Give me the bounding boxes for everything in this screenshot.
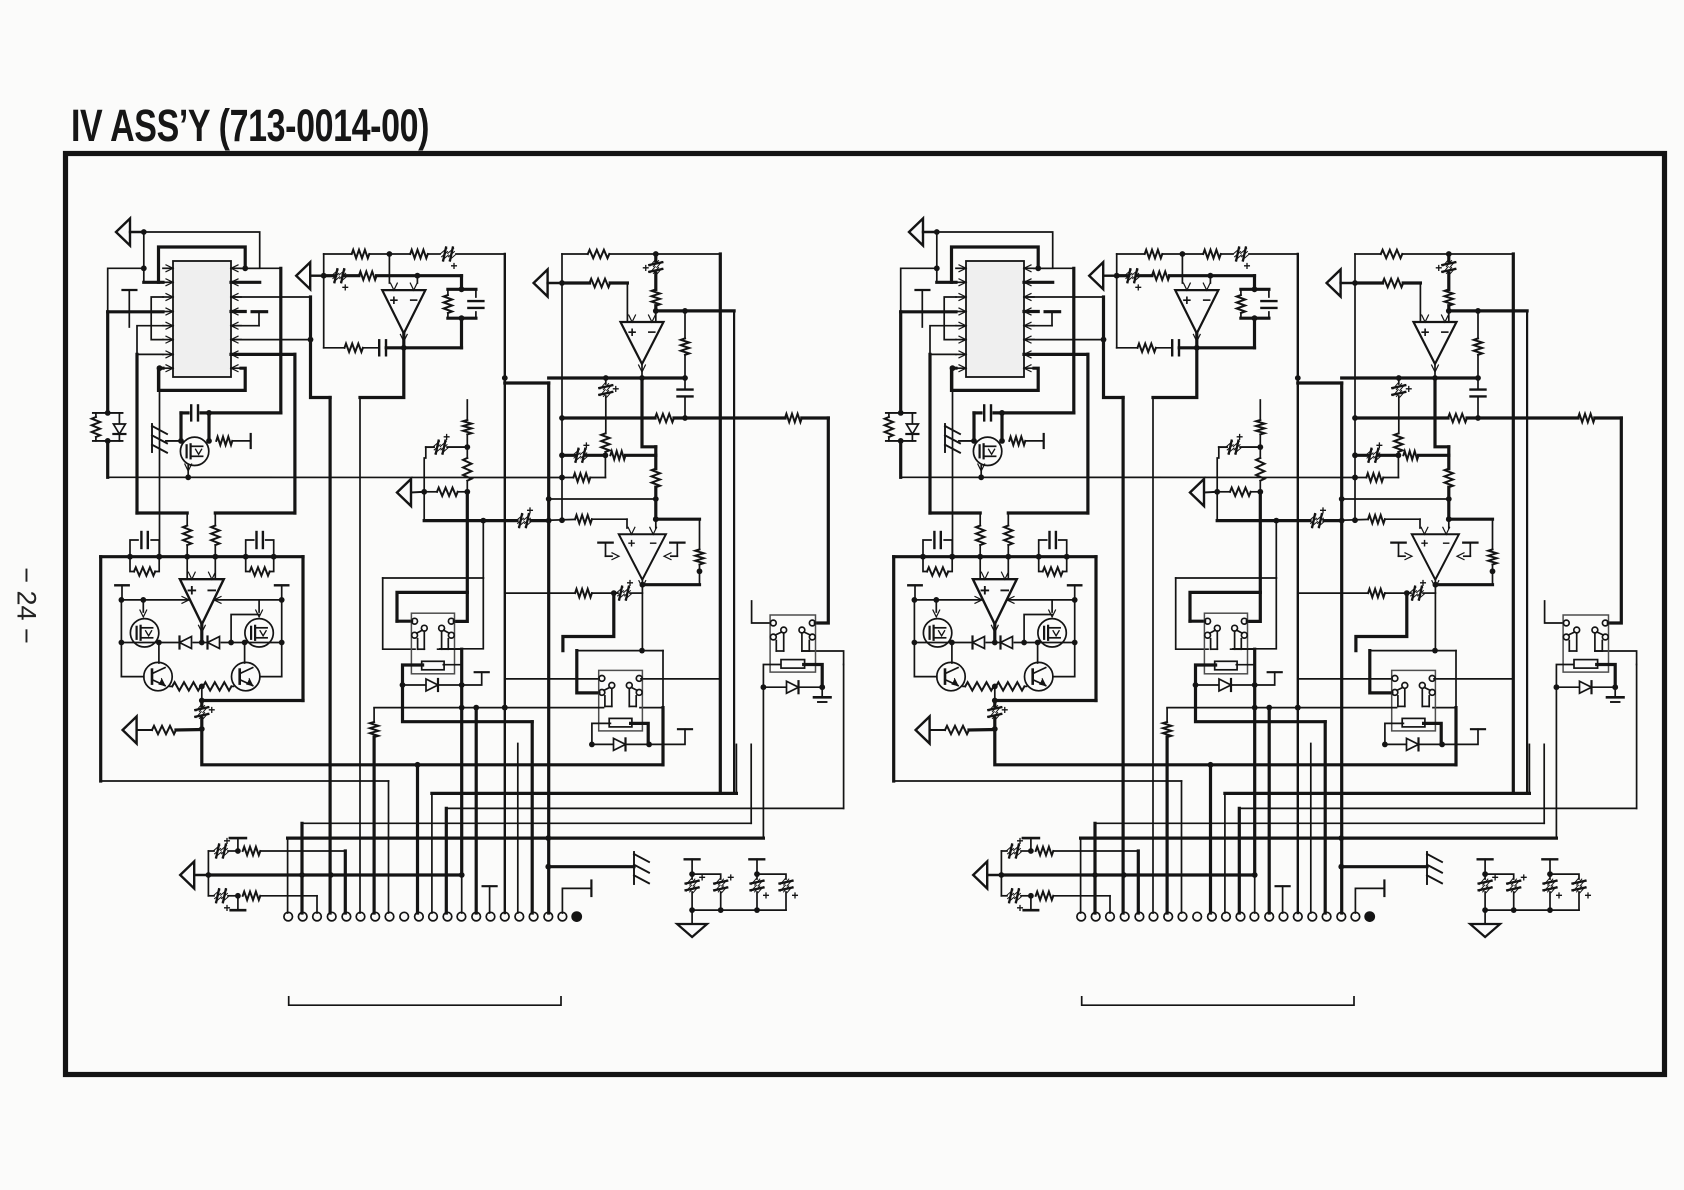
- capacitor C17b (polar): [1007, 889, 1034, 915]
- photo coupler light 2: [634, 852, 649, 884]
- wire H383: [505, 383, 552, 913]
- svg-text:+: +: [1419, 576, 1426, 590]
- wire Q3 gate loopb: [1021, 615, 1052, 646]
- input arrow IN3: [534, 270, 565, 297]
- wire relay1 thin loopb: [1176, 521, 1277, 650]
- ground GND1: [814, 687, 831, 702]
- wire side railb: [912, 597, 1078, 604]
- wire U2 in+ row: [324, 274, 462, 277]
- terminal T5b: [1391, 543, 1412, 560]
- wire bold loop L2-R1b: [952, 247, 1039, 282]
- capacitor C7b: [1471, 378, 1486, 418]
- op-amp U5: [619, 527, 666, 587]
- wire U3 in+ row: [562, 283, 627, 322]
- wire V462 boldb: [1253, 649, 1256, 875]
- wire U3 left V: [559, 254, 565, 523]
- resistor R23: [463, 420, 471, 447]
- terminal T11: [749, 859, 764, 877]
- terminal T4b: [1255, 672, 1282, 685]
- wire coil3 right: [804, 665, 825, 691]
- wire relay1 thin loop: [383, 521, 484, 650]
- wire U2 feedback rowb: [1117, 347, 1255, 349]
- resistor R24b: [1256, 447, 1264, 492]
- resistor R19: [170, 682, 201, 690]
- wire pin R3 pathb: [1024, 297, 1123, 398]
- svg-text:+: +: [791, 889, 798, 903]
- wire V734 bold: [733, 311, 735, 794]
- node U2b: [415, 273, 421, 279]
- wire diode row: [119, 640, 285, 646]
- svg-text:+: +: [1319, 504, 1326, 518]
- wire U5 fb boldb: [1356, 593, 1407, 651]
- svg-text:+: +: [1555, 889, 1562, 903]
- resistor R7: [652, 289, 660, 305]
- transistor Q2b: [923, 619, 951, 647]
- wire Q2-Q4: [121, 640, 161, 677]
- wire V504 bold: [502, 254, 508, 913]
- diode D5b: [1385, 738, 1445, 750]
- terminal T2: [115, 585, 128, 600]
- capacitor C1b (polar): [1234, 248, 1251, 274]
- wire Q1 source: [185, 464, 192, 477]
- node U3bb: [1446, 306, 1452, 314]
- relay RY2b: [1392, 670, 1436, 731]
- node R19/R20b: [992, 684, 998, 701]
- resistor R6b: [1381, 250, 1403, 258]
- node U3ab: [1446, 251, 1452, 257]
- node U2ab: [1180, 251, 1186, 257]
- wire U3 in- dropb: [1448, 311, 1450, 322]
- resistor R33b: [1036, 892, 1110, 913]
- wire V467 bold: [466, 492, 469, 593]
- diode D6: [763, 681, 822, 693]
- wire V424: [423, 458, 425, 521]
- resistor R2b: [1203, 250, 1221, 258]
- wire relay1 bold loopb: [1190, 592, 1260, 621]
- capacitor C2b (polar): [1125, 269, 1142, 295]
- wire relay2 U to busb: [1454, 708, 1457, 765]
- wire loop L5-L7b: [930, 326, 956, 355]
- svg-text:−: −: [1442, 535, 1450, 550]
- svg-text:+: +: [1421, 535, 1429, 550]
- capacitor C18b (polar): [1479, 871, 1499, 911]
- capacitor C16b (polar): [1007, 834, 1034, 858]
- transistor Q3: [245, 619, 273, 647]
- wire U5 in- nodeb: [1446, 516, 1493, 528]
- resistor R32b: [1036, 847, 1139, 855]
- wire U2 inputs: [389, 254, 417, 283]
- resistor R10: [655, 414, 674, 422]
- wire V137 boldb: [930, 354, 980, 513]
- op-amp U2b: [1175, 283, 1218, 341]
- resistor R10b: [1448, 414, 1467, 422]
- transistor Q1 (photo-MOS): [178, 437, 212, 465]
- resistor R13b: [1366, 473, 1383, 481]
- input arrow IN1b: [909, 219, 937, 246]
- capacitor C13b (polar): [1276, 504, 1344, 528]
- wire arrow to pin L2b: [937, 232, 956, 282]
- wire bus V280b: [1072, 268, 1075, 413]
- capacitor C2 (polar): [332, 269, 349, 295]
- terminal T7: [649, 729, 692, 744]
- resistor R19b: [963, 682, 994, 690]
- wire V424b: [1216, 458, 1218, 521]
- wire H499: [549, 499, 656, 519]
- wire pin R7 path: [231, 354, 295, 513]
- terminal T8: [230, 838, 246, 851]
- resistor R32: [243, 847, 346, 855]
- wire loop L3-L6b: [944, 297, 956, 340]
- page number: [11, 556, 42, 656]
- wire pin R2 stub: [231, 281, 260, 284]
- capacitor C7: [678, 378, 693, 418]
- resistor R30: [575, 589, 592, 597]
- wire relay3 left V: [762, 687, 764, 838]
- svg-text:+: +: [1016, 901, 1023, 915]
- wire U2 outb: [1194, 333, 1200, 350]
- wire coil1 rightb: [1231, 649, 1258, 688]
- wire V734 boldb: [1526, 311, 1528, 794]
- wire V532 bold: [531, 722, 534, 913]
- jumper pin R4b: [1024, 312, 1060, 326]
- relay RY3: [770, 615, 815, 672]
- resistor R6: [588, 250, 610, 258]
- svg-text:+: +: [1520, 871, 1527, 885]
- resistor R13: [573, 473, 590, 481]
- resistor R12 / zener D1 pairb: [885, 410, 919, 444]
- wire pin R7 pathb: [1024, 354, 1088, 513]
- capacitor C1 (polar): [441, 248, 458, 274]
- resistor R16b: [1004, 513, 1012, 557]
- resistor R27: [652, 455, 660, 502]
- wire relay3 top left: [752, 601, 771, 623]
- wire V504 boldb: [1295, 254, 1301, 913]
- svg-text:−: −: [649, 535, 657, 550]
- wire zener top upb: [899, 312, 902, 413]
- connector CN1b pin21 (filled): [1364, 911, 1375, 922]
- terminal T8b: [1023, 838, 1039, 851]
- resistor R1b: [1145, 250, 1163, 258]
- node L8: [157, 365, 163, 371]
- wire U3 in- row: [656, 308, 734, 314]
- diode D6b: [1556, 681, 1615, 693]
- resistor R3: [359, 272, 377, 280]
- op-amp U2: [382, 283, 425, 341]
- transistor Q4: [144, 662, 172, 690]
- capacitor C3: [379, 340, 386, 355]
- svg-text:+: +: [1421, 324, 1430, 341]
- input arrow IN2: [296, 262, 326, 289]
- svg-text:+: +: [626, 576, 633, 590]
- wire diode rowb: [912, 640, 1078, 646]
- wire zener bottom downb: [899, 441, 902, 477]
- resistor R15: [183, 513, 191, 557]
- resistor R28b: [1368, 515, 1385, 523]
- wire bold U below IC: [159, 368, 246, 390]
- wire relay1 out bold: [403, 685, 533, 722]
- terminal T3: [275, 585, 288, 600]
- terminal T5: [598, 543, 619, 560]
- wire U5 in+: [549, 519, 627, 528]
- wire U3 left Vb: [1352, 254, 1358, 523]
- RC network R5/C4b: [1237, 276, 1277, 348]
- resistor R29b: [1488, 519, 1496, 585]
- capacitor C18 (polar): [686, 871, 706, 911]
- label bracketb: [1082, 997, 1354, 1005]
- wire V467 boldb: [1259, 492, 1262, 593]
- wire side rail: [119, 597, 285, 604]
- wire U4 outb: [993, 624, 996, 642]
- wire relay1 bold loop: [397, 592, 467, 621]
- ground GND2: [677, 910, 707, 937]
- terminal T6b: [1457, 543, 1478, 560]
- resistor R23b: [1256, 420, 1264, 447]
- wire cluster1 bottom: [689, 907, 760, 913]
- input arrow IN4b: [916, 717, 945, 744]
- input arrow IN3b: [1327, 270, 1358, 297]
- relay RY1b: [1204, 613, 1247, 674]
- wire gate/drain caps: [181, 413, 209, 441]
- terminal T10: [685, 859, 700, 877]
- svg-text:+: +: [1016, 834, 1023, 848]
- resistor R2: [410, 250, 428, 258]
- wire relay2 U to bus: [661, 708, 664, 765]
- capacitor C6 (polar): [599, 378, 619, 433]
- resistor R30b: [1368, 589, 1385, 597]
- capacitor C19b (polar): [1485, 871, 1527, 911]
- svg-text:+: +: [526, 504, 533, 518]
- wire coil1 left: [400, 665, 423, 688]
- diode D2b: [973, 637, 985, 649]
- wire c13 stubb: [1254, 875, 1256, 913]
- wire H781b: [894, 781, 1182, 913]
- wire V489: [483, 886, 497, 913]
- node U3a: [653, 251, 659, 257]
- svg-text:+: +: [1435, 261, 1442, 275]
- wire H477b: [901, 474, 1399, 480]
- node A1b: [934, 229, 940, 235]
- wire arrow to pin L2: [144, 232, 163, 282]
- wire H499b: [1342, 499, 1449, 519]
- resistor R4b: [1138, 344, 1156, 352]
- wire coil2 right: [631, 723, 649, 744]
- svg-text:+: +: [223, 834, 230, 848]
- op-amp U4: [180, 572, 224, 632]
- op-amp U3: [621, 315, 664, 372]
- svg-text:+: +: [1135, 281, 1142, 295]
- svg-text:−: −: [207, 581, 217, 600]
- wire H793 bold: [432, 744, 737, 913]
- resistor R9b: [1474, 311, 1482, 378]
- svg-text:+: +: [1405, 382, 1412, 396]
- node L8b: [950, 365, 956, 371]
- svg-text:+: +: [583, 438, 590, 452]
- wire coil3 leftb: [1554, 665, 1574, 691]
- capacitor C11 (polar): [195, 701, 215, 732]
- wire U5 fb bold: [563, 593, 614, 651]
- diode D5: [592, 738, 652, 750]
- IC U1 (DAC): [163, 261, 241, 377]
- node U3out: [639, 375, 645, 381]
- wire U4 inputsb: [980, 557, 1008, 579]
- svg-text:+: +: [628, 324, 637, 341]
- wire bus V280: [279, 268, 282, 413]
- svg-text:+: +: [1236, 430, 1243, 444]
- capacitor C5b (polar): [1435, 254, 1455, 289]
- resistor R7b: [1445, 289, 1453, 305]
- wire V476: [475, 708, 478, 913]
- terminal T11b: [1542, 859, 1557, 877]
- resistor R15b: [976, 513, 984, 557]
- node U2a: [387, 251, 393, 257]
- capacitor C16 (polar): [214, 834, 241, 858]
- connector CN1 pins: [284, 912, 567, 921]
- wire coil2 rightb: [1424, 723, 1442, 744]
- node U3outb: [1432, 375, 1438, 381]
- wire H708b: [1167, 705, 1396, 711]
- wire c20 loopb: [1355, 881, 1384, 914]
- photo coupler light: [152, 424, 181, 453]
- node A1: [141, 229, 147, 235]
- input arrow IN2b: [1089, 262, 1119, 289]
- wire gate/drain capsb: [974, 413, 1002, 441]
- wire IN6 main bold: [208, 872, 464, 878]
- svg-text:−: −: [409, 292, 418, 309]
- wire H823b: [1095, 744, 1544, 913]
- resistor R4: [345, 344, 363, 352]
- connector CN1b pins: [1077, 912, 1360, 921]
- capacitor C12 (polar): [426, 430, 468, 458]
- wire H823: [302, 744, 751, 913]
- wire U3 out Vb: [1435, 378, 1449, 455]
- wire relay2 contacts out: [505, 678, 721, 680]
- node R19/R20: [199, 684, 205, 701]
- wire IN6 downb: [1001, 875, 1007, 896]
- capacitor C15b (polar): [1410, 576, 1427, 600]
- wire coil1 leftb: [1193, 665, 1216, 688]
- diode D4b: [1196, 679, 1255, 691]
- resistor R28: [575, 515, 592, 523]
- wire zener top up: [106, 312, 109, 413]
- wire U3 top rowb: [1355, 253, 1513, 255]
- resistor R20: [203, 682, 234, 690]
- wire coil3 rightb: [1597, 665, 1618, 691]
- svg-text:+: +: [390, 292, 399, 309]
- svg-text:+: +: [642, 261, 649, 275]
- wire pin R5b: [1024, 325, 1052, 327]
- svg-text:−: −: [1202, 292, 1211, 309]
- ground GND1b: [1607, 687, 1624, 702]
- capacitor C21b (polar): [1550, 874, 1592, 910]
- terminal T10b: [1478, 859, 1493, 877]
- svg-text:−: −: [1000, 581, 1010, 600]
- relay RY1: [411, 613, 454, 674]
- wire H513 rightb: [1008, 511, 1088, 514]
- wire amp out boldb: [995, 729, 1456, 765]
- terminal T1b: [916, 290, 930, 327]
- transistor Q1b (photo-MOS): [971, 437, 1005, 465]
- wire left drop: [120, 643, 122, 677]
- ground GND2b: [1470, 910, 1500, 937]
- resistor R26: [601, 433, 609, 477]
- diode D3b: [1001, 637, 1013, 649]
- svg-text:+: +: [628, 535, 636, 550]
- resistor R8: [590, 279, 611, 287]
- wire V345b: [1137, 851, 1140, 913]
- svg-text:+: +: [450, 259, 457, 273]
- svg-text:+: +: [980, 581, 990, 600]
- wire loop L3-L6: [151, 297, 163, 340]
- wire U3 out V: [642, 378, 656, 455]
- svg-text:−: −: [648, 324, 657, 341]
- svg-text:+: +: [699, 871, 706, 885]
- wire H418 bold: [559, 415, 828, 421]
- resistor R11: [785, 414, 802, 422]
- wire V330 boldb: [1121, 398, 1124, 914]
- transistor Q3b: [1038, 619, 1066, 647]
- capacitor C17 (polar): [214, 889, 241, 915]
- transistor Q5b: [1025, 662, 1053, 690]
- wire H838 boldb: [1081, 835, 1557, 913]
- input arrow IN6: [180, 862, 211, 889]
- capacitor C20 (polar): [751, 874, 770, 910]
- terminal T7b: [1442, 729, 1485, 744]
- wire U5 out: [640, 580, 700, 651]
- wire V720 boldb: [1512, 254, 1515, 793]
- capacitor C15 (polar): [617, 576, 634, 600]
- wire V417 boldb: [1208, 762, 1214, 913]
- capacitor C20b (polar): [1544, 874, 1563, 910]
- wire L8 downb: [952, 368, 954, 557]
- connector CN1 pin21 (filled): [571, 911, 582, 922]
- wire zener bottom down: [106, 441, 109, 477]
- terminal T3b: [1068, 585, 1081, 600]
- wire Q3-Q5: [242, 640, 282, 677]
- wire pin R1 to busb: [1034, 267, 1074, 269]
- wire U2 out: [401, 333, 407, 350]
- wire U5 feedbackb: [1298, 590, 1436, 596]
- svg-text:+: +: [612, 382, 619, 396]
- transistor Q2: [130, 619, 158, 647]
- wire V517b: [1310, 744, 1312, 914]
- wire U2 left loopb: [1116, 254, 1118, 348]
- wire Q2-Q4b: [914, 640, 954, 677]
- wire Q3 gate loop: [228, 615, 259, 646]
- wire c13 stub: [461, 875, 463, 913]
- wire amp box bottom: [199, 698, 303, 704]
- wire U2 top row: [324, 253, 505, 255]
- wire bold U below ICb: [952, 368, 1039, 390]
- resistor R31b: [1163, 708, 1171, 913]
- wire rail drops: [121, 600, 281, 643]
- resistor R11b: [1578, 414, 1595, 422]
- capacitor C21 (polar): [757, 874, 799, 910]
- capacitor C8: [181, 405, 281, 420]
- RC pair C9/R17: [127, 532, 162, 576]
- wire U2 left loop: [323, 254, 325, 348]
- terminal T6: [664, 543, 685, 560]
- resistor R8b: [1383, 279, 1404, 287]
- wire U5 outb: [1433, 580, 1493, 651]
- resistor R14: [216, 434, 250, 448]
- node U3b: [653, 306, 659, 314]
- transistor Q4b: [937, 662, 965, 690]
- input arrow IN6b: [973, 862, 1004, 889]
- wire coil2 left: [589, 723, 610, 747]
- svg-text:+: +: [727, 871, 734, 885]
- wire relay2 loop: [577, 648, 663, 708]
- capacitor C5 (polar): [642, 254, 662, 289]
